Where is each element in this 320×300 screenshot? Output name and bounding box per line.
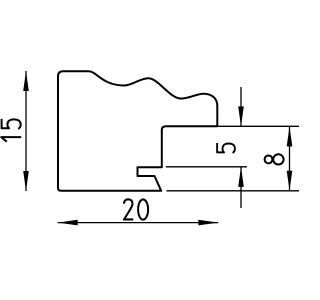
extension line middle (5 bottom) (166, 166, 247, 168)
dimension 20 line (58, 222, 219, 224)
dimension 15 line (25, 71, 27, 191)
label 15 (1, 137, 21, 142)
arrow left (20) (58, 220, 78, 226)
extension line ledge (top of rabbet) (217, 125, 299, 127)
arrow down (8) (287, 171, 293, 191)
dimension 5 upper line + down arrow (240, 87, 242, 126)
extension line bottom (8 bottom) (167, 190, 300, 192)
dimension 8 line (289, 126, 291, 190)
arrow up (8) (287, 126, 293, 146)
moulding profile outline (58, 71, 217, 191)
arrow right (20) (198, 220, 218, 226)
arrow down (15) (23, 171, 29, 191)
arrow up (15) (23, 71, 29, 91)
label 5 (217, 143, 235, 153)
dimension 5 lower line + up arrow (240, 167, 242, 208)
label 8 (265, 154, 284, 164)
label 20 (124, 199, 133, 219)
